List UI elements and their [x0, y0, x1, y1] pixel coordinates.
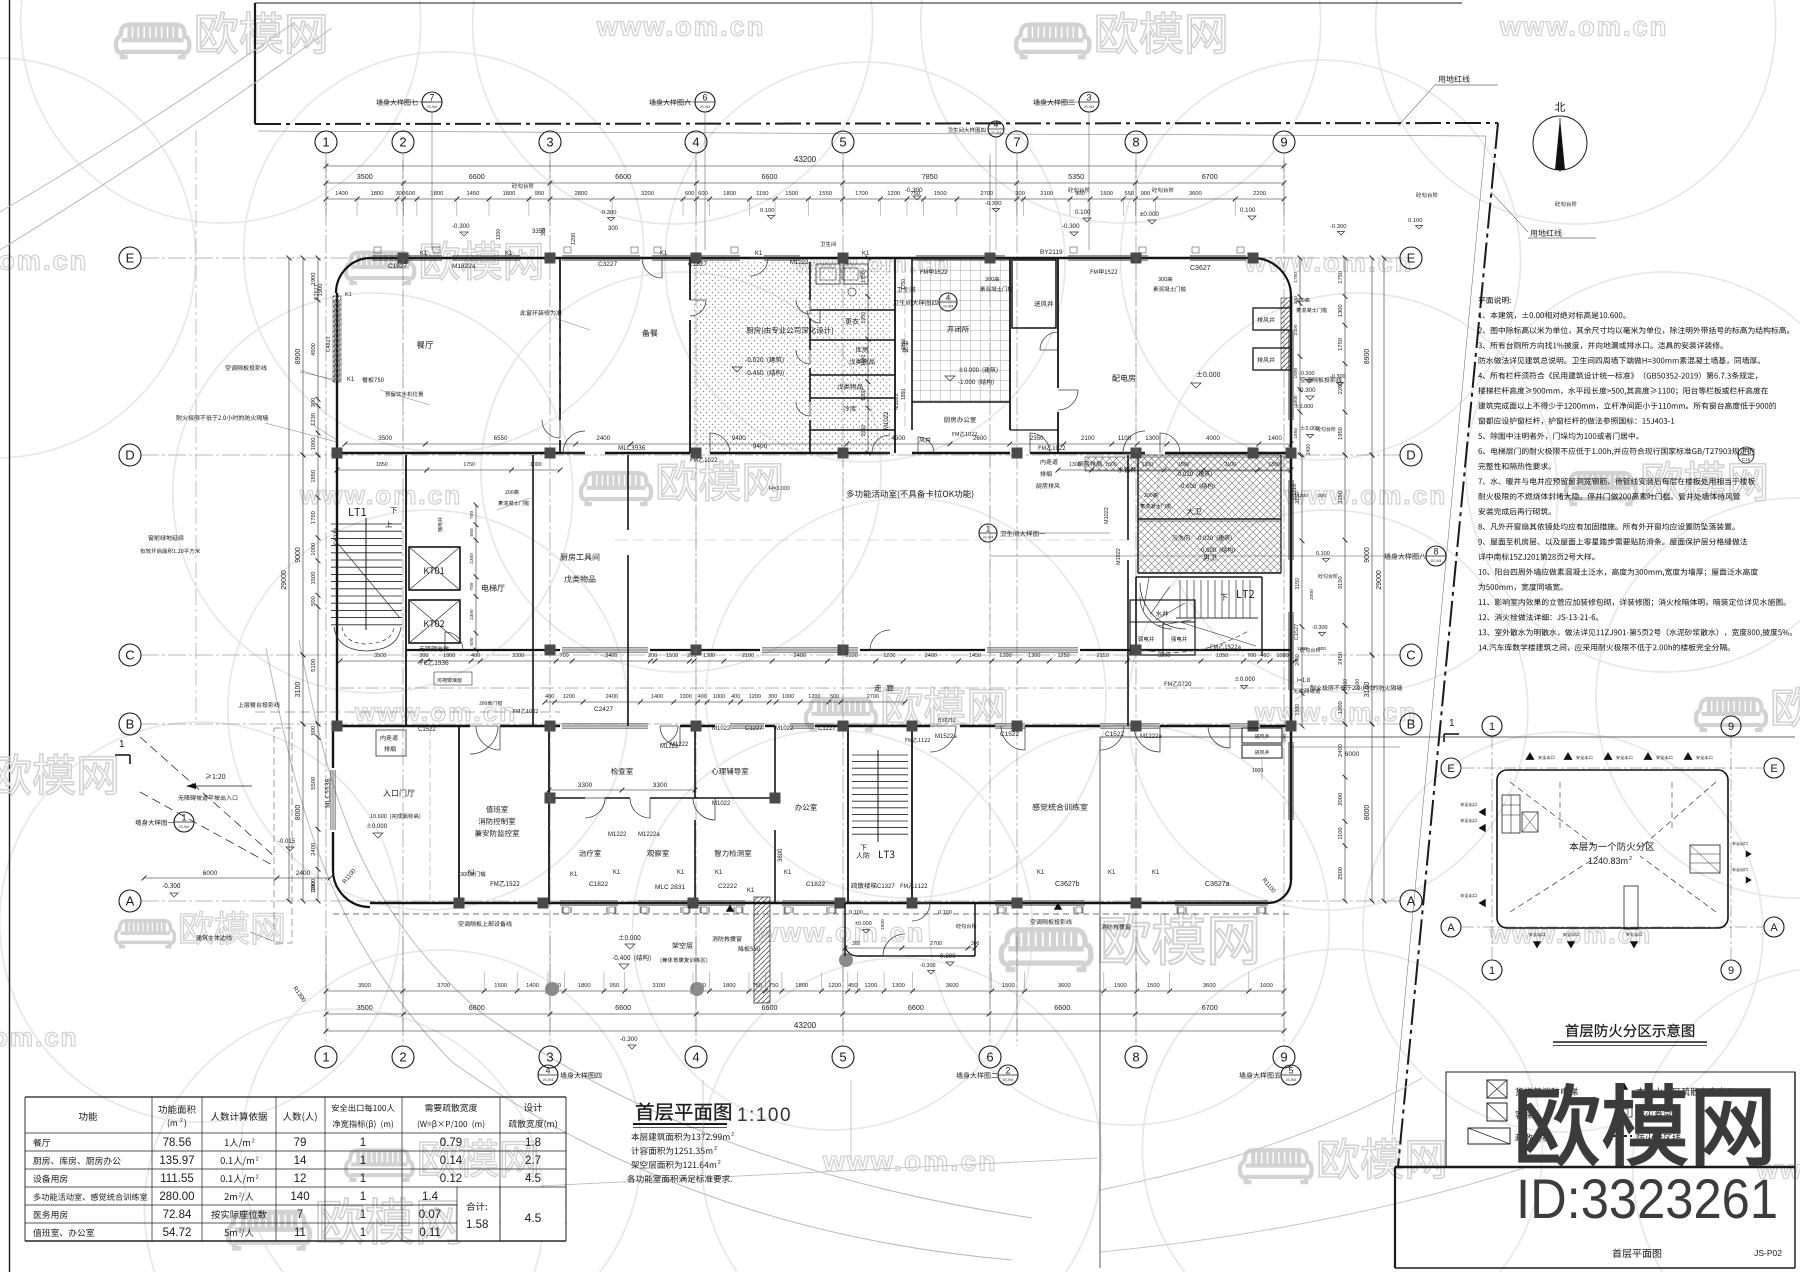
- svg-text:M1022: M1022: [1104, 507, 1110, 524]
- svg-text:2100: 2100: [1224, 462, 1236, 468]
- lower rooms top dimension chain: [545, 701, 905, 703]
- svg-text:3: 3: [1086, 93, 1091, 103]
- svg-text:-0.300: -0.300: [985, 201, 1001, 207]
- svg-text:1300: 1300: [1142, 462, 1154, 468]
- svg-text:43200: 43200: [794, 1021, 817, 1030]
- right inner chain E-D: [1299, 258, 1301, 455]
- svg-text:2150: 2150: [1097, 653, 1109, 659]
- svg-text:6000: 6000: [203, 870, 218, 877]
- svg-text:1: 1: [360, 1227, 366, 1239]
- svg-text:5500: 5500: [311, 777, 317, 790]
- svg-text:3200: 3200: [641, 191, 654, 197]
- svg-text:D: D: [125, 448, 134, 463]
- multifunction room label: [847, 490, 974, 499]
- svg-text:C1522: C1522: [1000, 731, 1020, 738]
- road curve bottom right 1: [1100, 1078, 1422, 1190]
- svg-text:-0.300: -0.300: [452, 223, 470, 230]
- svg-text:3150: 3150: [1338, 491, 1344, 504]
- svg-text:0.100: 0.100: [1240, 207, 1256, 214]
- svg-text:1500: 1500: [1002, 983, 1015, 989]
- svg-text:K1: K1: [1152, 870, 1160, 876]
- svg-text:K1: K1: [784, 870, 792, 876]
- svg-text:8900: 8900: [295, 349, 302, 365]
- svg-text:2: 2: [252, 1139, 255, 1145]
- svg-text:-0.300: -0.300: [1299, 371, 1315, 377]
- fire wall annotation left: [176, 415, 268, 421]
- wall detail bubble 3 top: [1079, 92, 1099, 112]
- svg-text:2.7: 2.7: [525, 1155, 541, 1167]
- svg-text:1600: 1600: [1260, 983, 1273, 989]
- svg-text:K1: K1: [347, 377, 355, 383]
- svg-text:C3227: C3227: [598, 261, 618, 268]
- svg-text:9: 9: [1280, 1050, 1287, 1065]
- left dimension total 29000: [288, 258, 290, 901]
- svg-text:2400: 2400: [606, 694, 618, 700]
- left dimension chain inner: [317, 258, 319, 455]
- stair LT1 label: [349, 508, 366, 516]
- table totals merged: [466, 1202, 487, 1211]
- svg-text:111.55: 111.55: [160, 1173, 193, 1185]
- 3300 dims inside exam room: [549, 789, 695, 791]
- svg-text:700: 700: [469, 582, 475, 590]
- svg-text:2400: 2400: [596, 435, 610, 442]
- extra rescue window label right: [1101, 924, 1130, 930]
- inner vertical mini dims right mid: [1301, 455, 1303, 726]
- svg-text:1800: 1800: [430, 191, 443, 197]
- upper block centreline dashes: [402, 258, 404, 453]
- svg-text:2400: 2400: [1306, 444, 1312, 455]
- sheet label bottom: [1613, 1249, 1662, 1258]
- svg-text:2700: 2700: [930, 941, 942, 947]
- right dimension total 29000: [1383, 258, 1385, 901]
- svg-text:5: 5: [1288, 1066, 1293, 1076]
- svg-text:3600: 3600: [1203, 983, 1216, 989]
- fire compartment dashed diagonals: [1510, 782, 1716, 912]
- svg-text:9: 9: [1280, 135, 1287, 150]
- svg-text:0.100: 0.100: [1408, 218, 1423, 224]
- lower rooms wall x459: [458, 726, 460, 903]
- legend item freight elevator: [1487, 1080, 1507, 1098]
- svg-text:3100: 3100: [1355, 679, 1361, 690]
- svg-text:1300: 1300: [1268, 462, 1280, 468]
- sheet right border: [1794, 1072, 1796, 1268]
- storage stack west wall x810: [809, 262, 811, 300]
- elevator hall label: [482, 584, 505, 591]
- small 1300 1500 dims left of D: [337, 469, 560, 471]
- svg-text:3700: 3700: [437, 983, 450, 989]
- extra labels kitchen zone: [919, 437, 930, 443]
- wall pantry/kitchen x690: [689, 258, 691, 300]
- svg-text:700: 700: [469, 511, 475, 519]
- window sill tick clusters bottom wall: [562, 907, 564, 913]
- svg-text:C1527: C1527: [1294, 624, 1300, 640]
- legend item fire shutter: [1616, 1107, 1632, 1117]
- D-row dimension chain: [345, 443, 1291, 445]
- svg-text:1800: 1800: [795, 983, 808, 989]
- svg-text:1950: 1950: [861, 355, 867, 367]
- svg-text:1200: 1200: [1338, 701, 1344, 714]
- svg-text:www.om.cn: www.om.cn: [1254, 697, 1417, 727]
- svg-text:K1: K1: [420, 251, 428, 257]
- svg-text:2: 2: [399, 1050, 406, 1065]
- wall detail bubble 5 bottom: [1281, 1065, 1301, 1085]
- svg-text:1200: 1200: [883, 653, 895, 659]
- svg-text:6: 6: [986, 1050, 993, 1065]
- step labels: [512, 183, 534, 188]
- fire diagram stair symbol left: [1502, 795, 1520, 833]
- svg-text:M1822a: M1822a: [452, 263, 476, 270]
- wall detail bubble 2 bottom: [998, 1065, 1018, 1085]
- label FC1936 on C wall: [421, 660, 449, 665]
- svg-text:9000: 9000: [1364, 547, 1371, 563]
- svg-text:C1227: C1227: [818, 726, 836, 732]
- svg-text:1300: 1300: [469, 609, 475, 620]
- right dimension chain majors: [1371, 258, 1373, 455]
- B-row corridor wall: [333, 725, 470, 727]
- svg-text:-0.300: -0.300: [1312, 625, 1328, 631]
- svg-text:9400: 9400: [732, 435, 746, 442]
- svg-text:JS-W4: JS-W4: [1003, 1078, 1014, 1082]
- svg-text:1200: 1200: [808, 694, 820, 700]
- svg-text:12: 12: [294, 1173, 307, 1185]
- svg-text:1.58: 1.58: [466, 1219, 488, 1231]
- svg-text:300: 300: [311, 398, 317, 408]
- svg-text:300: 300: [852, 941, 861, 947]
- svg-text:1230: 1230: [311, 413, 317, 426]
- svg-text:460: 460: [1260, 653, 1269, 659]
- svg-text:1: 1: [181, 813, 186, 823]
- svg-text:500: 500: [830, 694, 839, 700]
- svg-text:600: 600: [469, 637, 475, 645]
- svg-text:JS-W4: JS-W4: [983, 536, 994, 540]
- svg-text:2: 2: [1629, 856, 1632, 862]
- svg-text:400: 400: [471, 653, 480, 659]
- svg-text:A: A: [1447, 922, 1455, 934]
- svg-text:8: 8: [1132, 1050, 1139, 1065]
- svg-text:1950: 1950: [901, 389, 907, 400]
- fire diagram title: [1566, 1024, 1694, 1038]
- svg-text:8000: 8000: [295, 805, 302, 821]
- svg-text:1900: 1900: [311, 882, 317, 893]
- svg-text:C1327: C1327: [877, 884, 895, 890]
- svg-text:www.om.cn: www.om.cn: [822, 1145, 998, 1176]
- svg-text:3600: 3600: [946, 983, 959, 989]
- svg-text:4000: 4000: [1206, 435, 1220, 442]
- svg-text:1300: 1300: [703, 653, 715, 659]
- svg-text:1400: 1400: [1268, 435, 1282, 442]
- svg-text:1500: 1500: [1178, 462, 1190, 468]
- svg-text:1800: 1800: [578, 983, 591, 989]
- svg-text:K1: K1: [468, 870, 476, 876]
- svg-text:3150: 3150: [1338, 576, 1344, 589]
- svg-text:B: B: [1407, 717, 1416, 732]
- svg-text:1950: 1950: [1338, 427, 1344, 440]
- svg-text:550: 550: [1124, 191, 1134, 197]
- svg-text:200: 200: [648, 653, 657, 659]
- svg-text:280.00: 280.00: [159, 1191, 194, 1203]
- svg-text:JS-W4: JS-W4: [991, 131, 1002, 135]
- windows on left wall upper: [334, 300, 336, 380]
- upper room labels: [417, 341, 433, 349]
- svg-text:2400: 2400: [296, 870, 311, 877]
- svg-text:C1822: C1822: [806, 881, 826, 888]
- legend item evacuation stair: [1468, 1128, 1510, 1144]
- svg-text:8: 8: [1132, 135, 1139, 150]
- svg-text:2400: 2400: [1293, 324, 1299, 335]
- road curve bottom right 2: [1100, 1168, 1524, 1252]
- top dimension minors: [326, 198, 1284, 200]
- svg-text:2050: 2050: [861, 425, 867, 437]
- left exterior wall: [336, 293, 338, 726]
- svg-text:3100: 3100: [1364, 682, 1371, 698]
- corridor centre dashed line: [340, 687, 1290, 689]
- bathroom detail bubble four top: [988, 121, 1004, 137]
- svg-text:5: 5: [839, 135, 846, 150]
- svg-text:C3627b: C3627b: [1055, 881, 1080, 888]
- stair LT3 west wall x848: [847, 726, 849, 903]
- svg-text:600: 600: [405, 191, 415, 197]
- right margin small labels: [1296, 298, 1309, 303]
- svg-text:M1022: M1022: [884, 411, 890, 430]
- threshold labels bottom: [460, 871, 485, 876]
- upper floor projection dashed rect: [274, 728, 292, 943]
- windows on right wall: [1288, 330, 1290, 420]
- svg-text:1300: 1300: [1028, 653, 1040, 659]
- svg-text:3600: 3600: [1058, 983, 1071, 989]
- exhaust shaft hatch right wall: [1281, 298, 1291, 370]
- windows on top wall: [372, 255, 442, 257]
- svg-text:2000: 2000: [1338, 793, 1344, 806]
- ramp labels: [206, 773, 225, 779]
- svg-text:1400: 1400: [526, 983, 539, 989]
- svg-text:±0.000: ±0.000: [1140, 211, 1159, 218]
- svg-text:7: 7: [1013, 135, 1020, 150]
- fire diagram center bottom shaft: [1624, 886, 1638, 929]
- svg-text:C: C: [125, 648, 134, 663]
- svg-text:1000: 1000: [1252, 768, 1263, 774]
- watermark logos and texts: [116, 25, 189, 58]
- bottom extension lines: [325, 935, 327, 1031]
- svg-text:1750: 1750: [1338, 271, 1344, 284]
- svg-text:3500: 3500: [357, 172, 373, 181]
- svg-text:2: 2: [256, 1175, 259, 1181]
- room labels lower block: [383, 789, 414, 796]
- svg-text:400: 400: [731, 694, 740, 700]
- kitchen floor dotted hatch: [692, 262, 892, 450]
- svg-text:-0.300: -0.300: [620, 1036, 638, 1043]
- svg-text:1200: 1200: [563, 694, 575, 700]
- stair LT3 center rail: [877, 750, 879, 842]
- top minor dim extension lines: [325, 200, 327, 216]
- svg-text:6000: 6000: [1345, 751, 1360, 758]
- svg-text:72.84: 72.84: [163, 1209, 192, 1221]
- svg-text:6600: 6600: [469, 1003, 485, 1012]
- svg-text:1240.83m: 1240.83m: [1588, 856, 1628, 866]
- svg-text:43200: 43200: [794, 155, 817, 164]
- grey dots on bottom dim line: [545, 982, 559, 996]
- glass door boxed label: [434, 672, 472, 685]
- svg-text:1000: 1000: [311, 438, 317, 451]
- partial watermark text left edge: [0, 754, 116, 795]
- fire compartment label: [1570, 842, 1655, 851]
- extra door arcs upper: [642, 258, 662, 278]
- corridor dimension chain: [340, 660, 1295, 662]
- svg-text:1500: 1500: [880, 919, 886, 930]
- bottom dimension minors: [326, 990, 1284, 992]
- toilet crosshatch mid right upper: [1138, 455, 1281, 519]
- svg-text:M1222: M1222: [790, 260, 809, 266]
- svg-text:H=3.000: H=3.000: [769, 486, 790, 492]
- svg-text:4: 4: [545, 1066, 550, 1076]
- right mid block walls: [1137, 455, 1139, 573]
- svg-text:www.om.cn: www.om.cn: [1499, 12, 1668, 42]
- svg-text:3: 3: [546, 135, 553, 150]
- upper corridor dashed centrelines: [559, 300, 561, 440]
- C-row corridor windows C2427: [562, 647, 648, 649]
- svg-text:2: 2: [714, 1146, 717, 1152]
- svg-text:H3: H3: [1743, 448, 1750, 454]
- svg-text:M1222: M1222: [660, 744, 679, 750]
- corridor chain second row labels: [479, 701, 502, 706]
- svg-text:K1: K1: [715, 870, 723, 876]
- svg-text:1300: 1300: [892, 983, 905, 989]
- top-left corner arc R1100: [336, 258, 371, 293]
- svg-text:C: C: [1406, 648, 1415, 663]
- svg-text:K1: K1: [570, 872, 578, 878]
- interior centreline dashes lower rooms: [549, 726, 551, 903]
- svg-text:14: 14: [294, 1155, 307, 1167]
- interior centreline dashes multifunction room: [695, 455, 697, 726]
- air intake shaft boxes below B right: [1242, 728, 1282, 743]
- svg-text:A: A: [1770, 922, 1778, 934]
- switch room bottom wall: [912, 401, 1010, 403]
- svg-text:1: 1: [322, 1050, 329, 1065]
- stair LT2 curved fan: [1140, 583, 1186, 629]
- stair LT3 treads: [852, 754, 908, 756]
- svg-text:2000: 2000: [1309, 589, 1315, 600]
- svg-text:29000: 29000: [281, 570, 288, 590]
- svg-text:1750: 1750: [1293, 272, 1299, 283]
- svg-text:54.72: 54.72: [163, 1227, 192, 1239]
- svg-text:B: B: [126, 717, 135, 732]
- svg-text:300: 300: [768, 694, 777, 700]
- svg-text:2400: 2400: [925, 653, 937, 659]
- svg-text:0.07: 0.07: [419, 1209, 441, 1221]
- road curve bottom sweep 1: [299, 640, 1032, 1218]
- left side leader lines: [300, 370, 337, 382]
- svg-text:E: E: [1447, 763, 1454, 775]
- svg-text:0.11: 0.11: [419, 1227, 441, 1239]
- lower rooms wall x549: [548, 726, 550, 903]
- svg-text:7: 7: [297, 1209, 303, 1221]
- ac panel label right: [1300, 377, 1341, 383]
- svg-text:om.cn: om.cn: [0, 1022, 79, 1052]
- stair LT1 treads: [331, 523, 402, 525]
- svg-text:1250: 1250: [1057, 653, 1069, 659]
- svg-text:JS-W4: JS-W4: [1084, 105, 1095, 109]
- svg-text:6600: 6600: [908, 1003, 924, 1012]
- legend item fire line: [1612, 1135, 1632, 1137]
- svg-text:6700: 6700: [1202, 1003, 1218, 1012]
- svg-text:2700: 2700: [867, 694, 879, 700]
- top dimension total 43200: [326, 165, 1284, 167]
- svg-text:JS-W4: JS-W4: [1431, 559, 1442, 563]
- svg-text:2: 2: [239, 1229, 242, 1235]
- big watermark ou mo wang: [1519, 1084, 1769, 1165]
- svg-text:1: 1: [360, 1209, 366, 1221]
- svg-text:1200: 1200: [828, 983, 841, 989]
- stair LT3 labels: [860, 845, 866, 851]
- layout helper lines near title: [702, 1080, 704, 1175]
- svg-text:3150: 3150: [1295, 578, 1301, 590]
- svg-text:8: 8: [1433, 547, 1438, 557]
- svg-text:9: 9: [1728, 965, 1734, 977]
- svg-text:3300: 3300: [653, 782, 668, 789]
- svg-text:78.56: 78.56: [163, 1137, 192, 1149]
- elevator KT01: [409, 547, 460, 590]
- svg-text:0.100: 0.100: [760, 208, 775, 214]
- ac panel line label left: [225, 365, 266, 371]
- svg-text:1750: 1750: [1338, 338, 1344, 351]
- svg-text:1.4: 1.4: [422, 1191, 439, 1203]
- svg-text:700: 700: [1247, 653, 1256, 659]
- svg-text:1800: 1800: [502, 191, 515, 197]
- fire wall annotation right: [1310, 685, 1402, 691]
- building main line label: [196, 935, 232, 941]
- svg-text:-0.300: -0.300: [905, 187, 923, 194]
- svg-text:-0.300: -0.300: [1298, 387, 1316, 394]
- fire diagram grid bubbles: [1482, 716, 1502, 736]
- svg-text:300: 300: [1293, 296, 1299, 304]
- left exterior wall lower with entrance gap: [332, 726, 334, 768]
- svg-text:1800: 1800: [371, 191, 384, 197]
- svg-text:0.12: 0.12: [440, 1173, 462, 1185]
- svg-text:1500: 1500: [934, 191, 947, 197]
- svg-text:JS-W4: JS-W4: [543, 1078, 554, 1082]
- fire compartment outline: [1497, 770, 1728, 928]
- svg-text:1300: 1300: [1069, 462, 1081, 468]
- svg-text:1000: 1000: [680, 694, 692, 700]
- watermark rings: [21, 0, 421, 223]
- svg-text:3200: 3200: [1158, 653, 1170, 659]
- svg-text:1750: 1750: [463, 462, 475, 468]
- bathroom detail bubble 4: [939, 293, 957, 311]
- north arrow compass: [1533, 116, 1587, 170]
- svg-text:1200: 1200: [864, 983, 877, 989]
- svg-text:7: 7: [429, 93, 434, 103]
- svg-text:2100: 2100: [1081, 435, 1095, 442]
- svg-text:6600: 6600: [762, 172, 778, 181]
- svg-text:900: 900: [1141, 191, 1151, 197]
- svg-text:1400: 1400: [335, 191, 348, 197]
- svg-text:450: 450: [848, 983, 858, 989]
- extra step label bottom: [956, 924, 976, 929]
- svg-text:5100: 5100: [311, 659, 317, 672]
- site red line descending right: [1398, 123, 1498, 1167]
- air supply shaft box: [1012, 260, 1056, 328]
- hatched pier below plan: [754, 897, 770, 1003]
- svg-text:6550: 6550: [494, 435, 508, 442]
- svg-text:11: 11: [294, 1227, 306, 1239]
- svg-text:1100: 1100: [1338, 827, 1344, 839]
- svg-text:600: 600: [698, 191, 708, 197]
- svg-text:www.om.cn: www.om.cn: [596, 12, 765, 42]
- svg-text:9: 9: [1728, 721, 1734, 733]
- svg-text:1500: 1500: [1100, 191, 1113, 197]
- svg-text:1950: 1950: [1293, 428, 1299, 439]
- svg-text:135.97: 135.97: [159, 1155, 194, 1167]
- lower rooms partition y798: [549, 797, 585, 799]
